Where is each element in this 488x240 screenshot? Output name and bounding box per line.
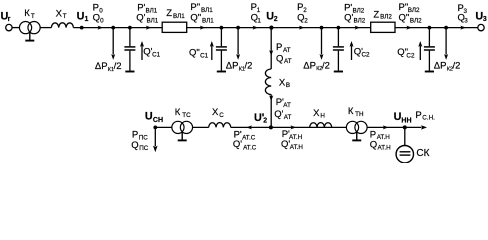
wire [187,27,371,29]
svg-text:Q": Q" [189,47,200,58]
node U_3 terminal [478,24,484,30]
node U_НН [403,125,407,129]
svg-text:С: С [219,112,224,119]
arrow P1 Q1 [253,26,259,30]
loss arrow ΔP_К2/2 left [320,28,324,60]
svg-text:Q: Q [276,53,283,64]
svg-text:В: В [286,82,290,89]
node junction [428,26,432,30]
node junction [128,26,132,30]
svg-text:г: г [8,16,11,23]
svg-text:ВЛ1: ВЛ1 [202,17,214,24]
svg-text:ВЛ2: ВЛ2 [380,14,392,21]
wire [395,27,478,29]
svg-text:Q': Q' [274,109,283,120]
svg-text:Q": Q" [190,12,201,23]
svg-text:ВЛ1: ВЛ1 [173,13,185,20]
transformer K_Т [19,22,40,41]
arrow P3 Q3 [460,26,466,30]
svg-text:ВЛ2: ВЛ2 [410,17,422,24]
arrow Q'_C2 [350,41,354,60]
svg-text:ΔP: ΔP [226,61,239,72]
svg-text:АТ: АТ [283,47,291,54]
svg-text:/2: /2 [245,61,253,72]
arrow P-VL1 out [200,26,206,30]
svg-text:АТ.С: АТ.С [242,134,256,141]
svg-text:АТ.Н: АТ.Н [290,144,304,151]
svg-text:АТ: АТ [283,102,291,109]
svg-text:ТН: ТН [355,111,364,118]
node junction [444,26,448,30]
svg-text:P": P" [190,2,200,13]
wire [40,27,51,29]
wire [193,126,209,128]
svg-text:1: 1 [85,16,89,23]
wire [155,126,172,128]
svg-text:ВЛ1: ВЛ1 [201,7,213,14]
svg-text:АТ.Н: АТ.Н [378,144,392,151]
arrow P-VL1 in [146,26,152,30]
wire [73,27,162,29]
wire to U'2 [270,95,272,128]
node U_СН [153,126,157,130]
wire [271,126,346,128]
svg-text:Q: Q [93,13,100,24]
arrow Q"_C2 [418,41,422,60]
svg-text:СК: СК [416,148,429,159]
arrow P_С.Н [421,125,427,129]
svg-text:ΔP: ΔP [434,61,447,72]
impedance Z_ВЛ2 [371,22,395,32]
svg-text:ТС: ТС [182,112,191,119]
arrow P'_АТ.С [246,125,252,129]
svg-text:С1: С1 [152,51,161,58]
svg-text:/2: /2 [114,61,122,72]
node U_2 [269,26,273,30]
svg-text:2: 2 [274,16,278,23]
wire to SC [404,127,406,145]
node junction [220,26,224,30]
transformer К_ТН [346,121,367,140]
capacitor Q-C2 right [424,28,435,72]
arrow P'_АТ [269,95,273,101]
svg-text:2: 2 [263,118,267,125]
svg-text:P: P [132,130,138,141]
node U_1 [80,26,84,30]
svg-text:К: К [348,106,354,117]
svg-text:/2: /2 [453,61,461,72]
svg-text:Т: Т [31,13,35,20]
inductor X_Н [310,123,332,128]
inductor X_В [265,69,271,95]
svg-text:Q: Q [370,139,377,150]
capacitor Q-C1 left [124,28,135,72]
svg-text:ΔP: ΔP [303,61,316,72]
node junction [320,26,324,30]
svg-text:Т: Т [63,13,67,20]
svg-text:АТ.С: АТ.С [243,144,257,151]
svg-text:/2: /2 [322,61,330,72]
node U_Г terminal [6,24,12,30]
svg-text:ВЛ2: ВЛ2 [353,8,365,15]
arrow Q"_C1 [210,41,214,60]
svg-text:С2: С2 [406,52,415,59]
svg-text:К: К [175,107,181,118]
svg-text:Q': Q' [136,13,145,24]
svg-text:Q': Q' [233,139,242,150]
svg-text:ВЛ1: ВЛ1 [146,8,158,15]
wire [367,126,421,128]
svg-text:АТ.Н: АТ.Н [377,134,391,141]
svg-text:U: U [145,111,153,123]
svg-text:АТ: АТ [284,114,292,121]
capacitor Q-C2 left [333,28,344,72]
loss arrow ΔP_К1/2 right [236,28,240,60]
svg-text:ВЛ2: ВЛ2 [408,7,420,14]
svg-text:1: 1 [257,17,261,24]
svg-text:ПС: ПС [139,135,149,142]
inductor X_Т [51,23,73,28]
svg-text:X: X [279,77,286,88]
loss arrow ΔP_К1/2 left [111,28,115,60]
arrow P_АТ [269,50,273,56]
svg-text:С.Н.: С.Н. [422,115,435,122]
svg-text:Н: Н [320,113,325,120]
impedance Z_ВЛ1 [162,22,187,32]
wire [231,126,272,128]
synchronous compensator СК [396,146,413,163]
arrow P2 Q2 [299,26,305,30]
svg-text:ПС: ПС [139,145,149,152]
node U'_2 [269,125,273,129]
wire U2 down [270,28,272,69]
svg-text:3: 3 [483,16,487,23]
svg-text:С1: С1 [200,52,209,59]
svg-text:P: P [276,42,282,53]
svg-text:X: X [313,108,320,119]
svg-text:АТ.Н: АТ.Н [289,134,303,141]
svg-text:ВЛ1: ВЛ1 [147,17,159,24]
arrow P_АТ.Н [383,125,389,129]
arrow P-VL2 in [355,26,361,30]
arrow P_ПС load [153,127,158,152]
svg-text:ВЛ2: ВЛ2 [354,17,366,24]
node junction [337,26,341,30]
svg-text:2: 2 [304,18,308,25]
svg-text:Q": Q" [399,12,410,23]
svg-text:ΔP: ΔP [95,61,108,72]
transformer К_ТС [172,121,193,140]
svg-text:К: К [24,8,30,19]
svg-text:X: X [56,8,63,19]
capacitor Q-C1 right [216,28,227,72]
arrow Q'_C1 [140,41,144,60]
loss arrow ΔP_К2/2 right [444,28,448,60]
svg-text:U: U [394,111,402,123]
svg-text:СН: СН [153,117,163,124]
arrow P'_АТ.Н [291,125,297,129]
svg-text:Q': Q' [344,13,353,24]
svg-text:3: 3 [464,18,468,25]
svg-text:НН: НН [401,117,411,124]
svg-text:U: U [77,11,85,23]
inductor X_С [209,123,231,128]
arrow P-VL2 out [406,26,412,30]
node junction [111,26,115,30]
svg-text:0: 0 [100,17,104,24]
svg-text:Q: Q [131,140,138,151]
wire [12,27,19,29]
svg-text:X: X [212,107,219,118]
svg-text:АТ: АТ [284,58,292,65]
svg-text:Z: Z [373,9,379,20]
svg-text:P: P [415,110,421,121]
svg-text:С2: С2 [362,51,371,58]
arrow P0 Q0 [98,26,104,30]
svg-text:Z: Z [166,8,172,19]
node junction [236,26,240,30]
